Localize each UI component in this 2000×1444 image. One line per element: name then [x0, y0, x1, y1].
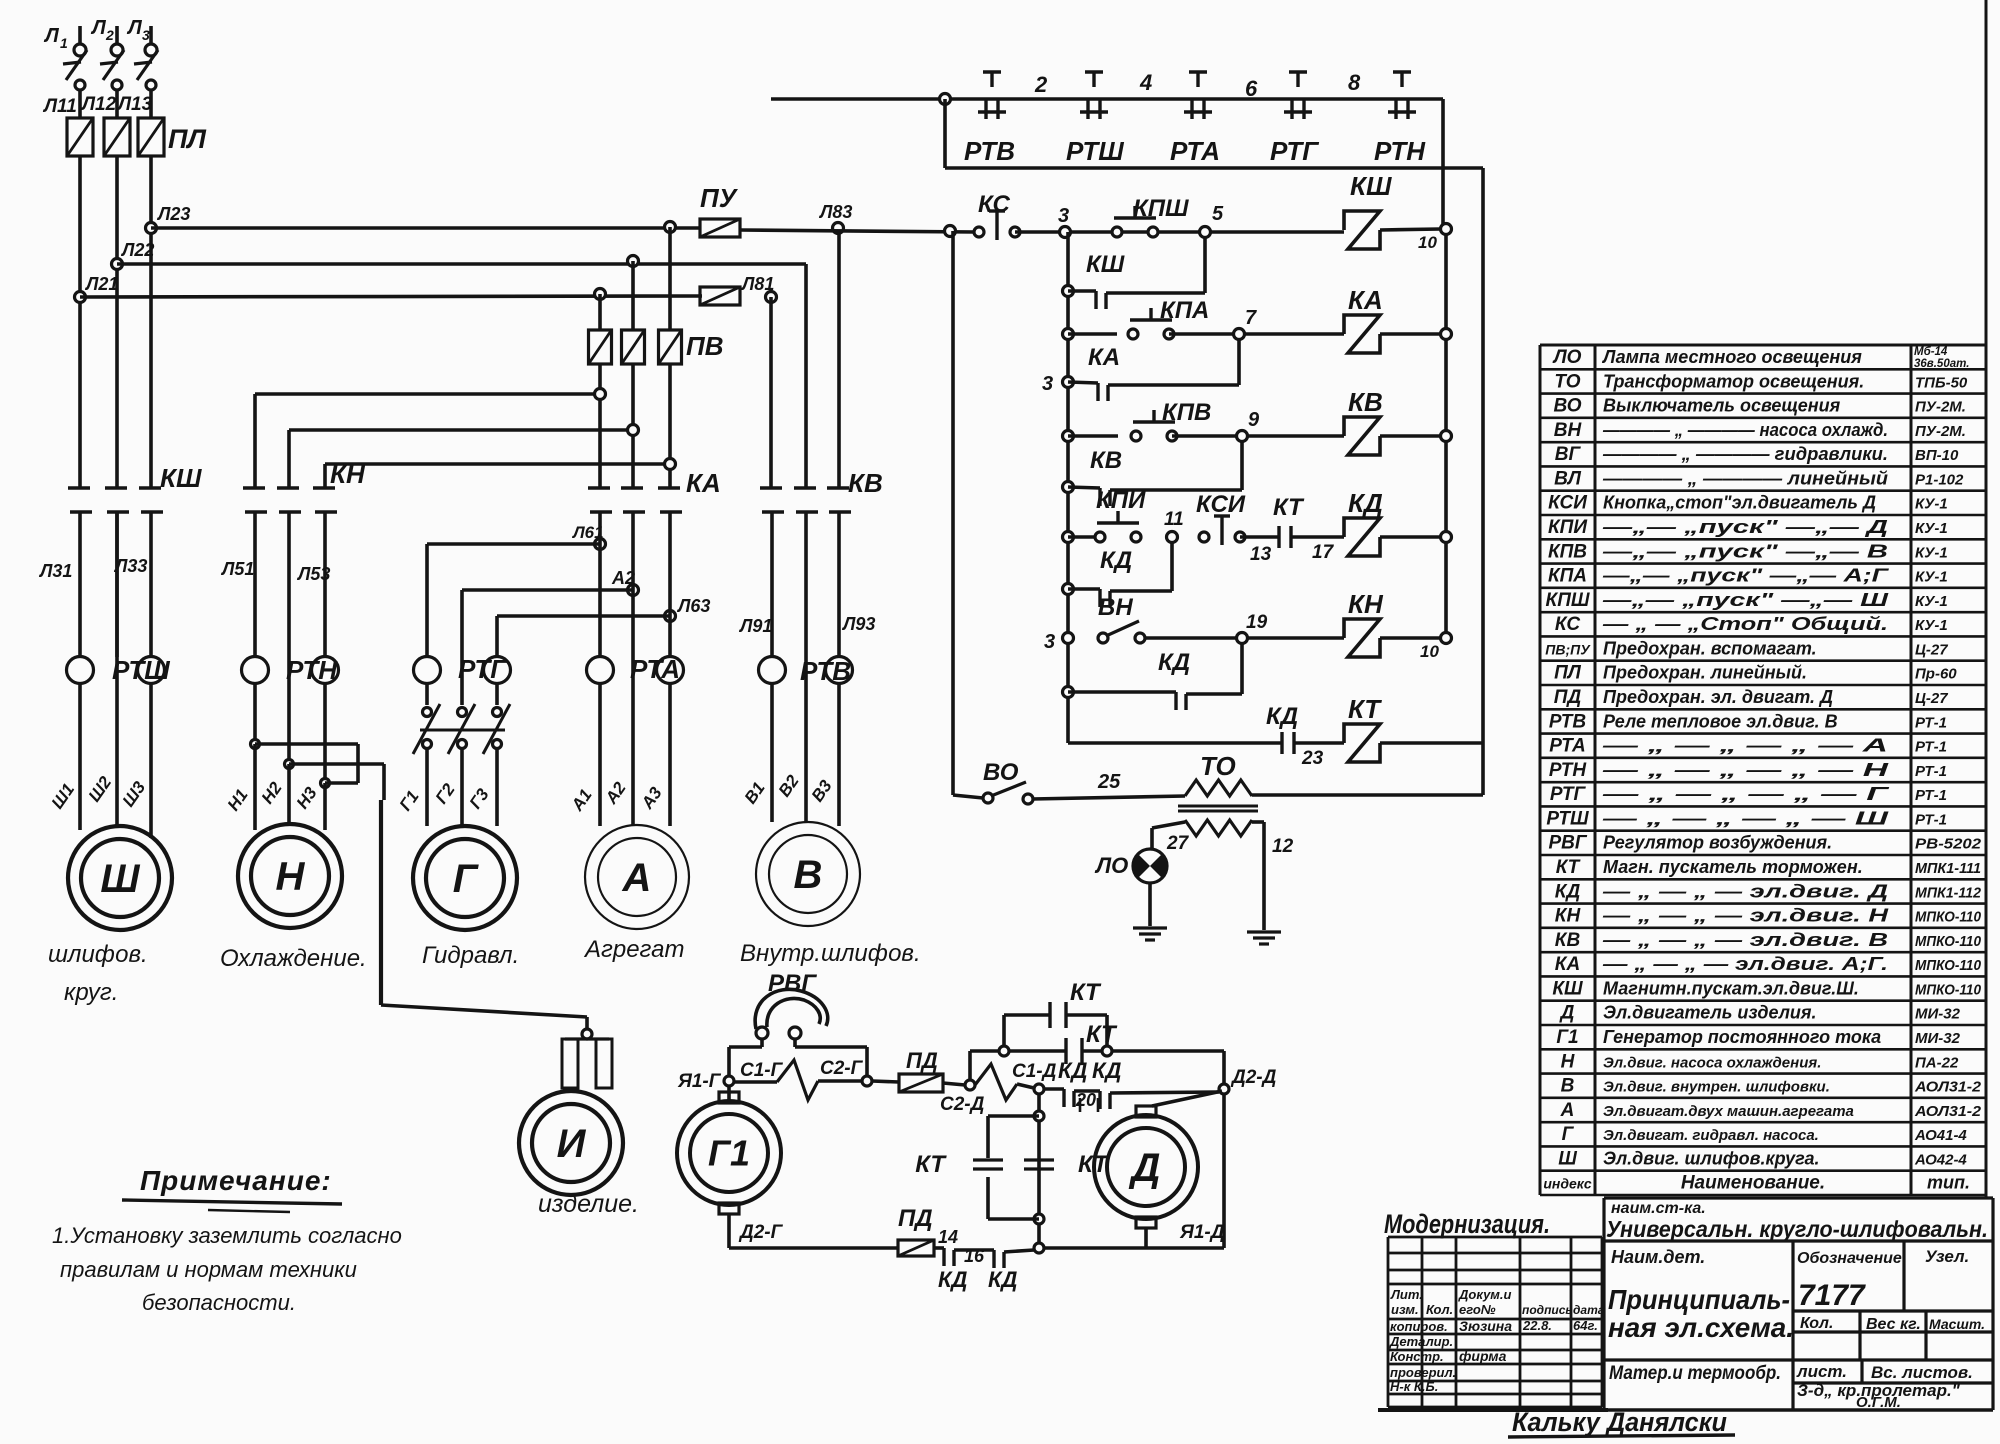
svg-text:Обозначение: Обозначение	[1797, 1250, 1902, 1267]
svg-text:Я1-Г: Я1-Г	[677, 1071, 722, 1092]
svg-text:———— „ ———— насоса охлажд.: ———— „ ———— насоса охлажд.	[1602, 420, 1888, 440]
svg-text:Ц-27: Ц-27	[1915, 690, 1948, 707]
svg-text:Реле тепловое эл.двиг. В: Реле тепловое эл.двиг. В	[1603, 711, 1838, 731]
svg-text:КТ: КТ	[1070, 979, 1102, 1006]
svg-text:Лит.: Лит.	[1390, 1287, 1423, 1302]
svg-text:Л93: Л93	[841, 614, 875, 634]
svg-text:Г: Г	[1562, 1124, 1575, 1145]
svg-text:РТГ: РТГ	[458, 654, 507, 684]
svg-text:МИ-32: МИ-32	[1915, 1030, 1961, 1047]
svg-text:Л81: Л81	[740, 274, 774, 294]
svg-text:РТВ: РТВ	[800, 656, 851, 686]
svg-text:КА: КА	[1348, 285, 1383, 315]
svg-text:Л33: Л33	[113, 556, 147, 576]
svg-text:МПКО-110: МПКО-110	[1915, 981, 1982, 998]
svg-text:Магнитн.пускат.эл.двиг.Ш.: Магнитн.пускат.эл.двиг.Ш.	[1603, 978, 1859, 998]
svg-text:ПД: ПД	[1554, 687, 1582, 708]
svg-text:КУ-1: КУ-1	[1915, 544, 1948, 561]
svg-text:—„— „пуск" —„— В: —„— „пуск" —„— В	[1601, 541, 1888, 561]
svg-text:———— „ ———— линейный: ———— „ ———— линейный	[1602, 468, 1888, 488]
svg-text:ТПБ-50: ТПБ-50	[1915, 374, 1968, 391]
svg-text:МПКО-110: МПКО-110	[1915, 909, 1982, 926]
svg-text:Ш: Ш	[100, 857, 140, 901]
svg-text:ПД: ПД	[898, 1205, 933, 1232]
svg-text:Эл.двиг. насоса охлаждения.: Эл.двиг. насоса охлаждения.	[1603, 1054, 1821, 1071]
svg-text:РТА: РТА	[1170, 136, 1220, 166]
svg-text:3: 3	[1042, 373, 1053, 395]
svg-text:Регулятор возбуждения.: Регулятор возбуждения.	[1603, 833, 1832, 853]
svg-text:КПА: КПА	[1160, 297, 1209, 324]
svg-text:Предохран. эл. двигат. Д: Предохран. эл. двигат. Д	[1603, 687, 1833, 707]
svg-text:КПВ: КПВ	[1548, 541, 1587, 562]
svg-text:КН: КН	[1555, 906, 1582, 927]
svg-text:проверил.: проверил.	[1390, 1365, 1456, 1380]
svg-text:Л13: Л13	[116, 94, 153, 115]
svg-text:КУ-1: КУ-1	[1915, 593, 1948, 610]
svg-text:ЛО: ЛО	[1094, 853, 1128, 878]
svg-text:1: 1	[60, 35, 68, 51]
svg-text:Модернизация.: Модернизация.	[1384, 1209, 1550, 1239]
svg-text:КТ: КТ	[1348, 694, 1382, 724]
svg-text:—„— „пуск" —„— Ш: —„— „пуск" —„— Ш	[1601, 590, 1888, 610]
svg-text:КПА: КПА	[1548, 566, 1587, 587]
svg-text:КВ: КВ	[1348, 387, 1383, 417]
svg-text:ПУ-2М.: ПУ-2М.	[1915, 423, 1966, 440]
svg-text:Узел.: Узел.	[1925, 1247, 1969, 1266]
svg-text:— „ — „Стоп" Общий.: — „ — „Стоп" Общий.	[1602, 614, 1888, 634]
svg-text:РТВ: РТВ	[1549, 711, 1587, 732]
svg-text:КУ-1: КУ-1	[1915, 496, 1948, 513]
svg-text:23: 23	[1301, 748, 1324, 769]
svg-text:Масшт.: Масшт.	[1929, 1316, 1985, 1332]
svg-text:РТ-1: РТ-1	[1915, 714, 1947, 731]
svg-text:Эл.двигат.двух машин.агрегата: Эл.двигат.двух машин.агрегата	[1603, 1103, 1854, 1120]
svg-text:наим.ст-ка.: наим.ст-ка.	[1611, 1200, 1706, 1217]
svg-text:С1-Г: С1-Г	[740, 1060, 784, 1081]
svg-text:10: 10	[1418, 233, 1437, 252]
svg-text:КД: КД	[1100, 547, 1132, 574]
svg-text:— „ — „ — эл.двиг. В: — „ — „ — эл.двиг. В	[1601, 930, 1888, 950]
svg-text:Л21: Л21	[84, 274, 118, 294]
svg-text:Г1: Г1	[708, 1133, 750, 1174]
svg-text:ПУ: ПУ	[700, 183, 739, 213]
svg-text:АОЛ31-2: АОЛ31-2	[1914, 1103, 1982, 1120]
svg-text:круг.: круг.	[64, 979, 118, 1006]
svg-text:Ц-27: Ц-27	[1915, 641, 1948, 658]
svg-text:Г: Г	[453, 857, 480, 901]
svg-text:КД: КД	[1348, 488, 1383, 518]
svg-text:— „ — „ — эл.двиг. А;Г.: — „ — „ — эл.двиг. А;Г.	[1602, 954, 1888, 974]
svg-text:КУ-1: КУ-1	[1915, 569, 1948, 586]
svg-text:КУ-1: КУ-1	[1915, 520, 1948, 537]
svg-text:7177: 7177	[1798, 1279, 1866, 1312]
svg-text:КН: КН	[1348, 589, 1384, 619]
svg-text:И: И	[557, 1122, 587, 1166]
svg-text:КПИ: КПИ	[1096, 487, 1146, 514]
svg-text:В: В	[794, 853, 823, 897]
svg-text:МПК1-112: МПК1-112	[1915, 884, 1982, 901]
svg-text:36в.50ат.: 36в.50ат.	[1914, 358, 1969, 370]
svg-text:тип.: тип.	[1927, 1173, 1970, 1193]
svg-text:———— „ ———— гидравлики.: ———— „ ———— гидравлики.	[1602, 444, 1888, 464]
svg-text:Л11: Л11	[42, 96, 77, 117]
svg-text:Предохран. вспомагат.: Предохран. вспомагат.	[1603, 638, 1817, 658]
svg-text:КА: КА	[1555, 954, 1580, 975]
svg-text:Н-к К.Б.: Н-к К.Б.	[1390, 1379, 1438, 1394]
svg-text:Д2-Д: Д2-Д	[1230, 1067, 1277, 1088]
svg-text:— „ — „ — эл.двиг. Н: — „ — „ — эл.двиг. Н	[1601, 906, 1889, 926]
svg-text:ТО: ТО	[1200, 751, 1236, 781]
svg-text:9: 9	[1248, 409, 1260, 431]
svg-text:РТШ: РТШ	[112, 655, 170, 685]
svg-text:Л63: Л63	[676, 596, 710, 616]
svg-text:13: 13	[1250, 544, 1272, 565]
svg-text:Н: Н	[1561, 1051, 1576, 1072]
svg-text:изделие.: изделие.	[538, 1190, 639, 1218]
svg-text:ПД: ПД	[906, 1048, 938, 1073]
svg-text:ВН: ВН	[1098, 594, 1133, 621]
svg-text:ВО: ВО	[983, 759, 1019, 786]
svg-text:РТШ: РТШ	[1066, 136, 1124, 166]
svg-text:правилам и нормам техники: правилам и нормам техники	[60, 1257, 357, 1282]
svg-text:Примечание:: Примечание:	[140, 1165, 332, 1196]
svg-text:Пр-60: Пр-60	[1915, 666, 1957, 683]
svg-text:лист.: лист.	[1796, 1362, 1847, 1381]
svg-text:РТШ: РТШ	[1546, 808, 1589, 829]
svg-text:64г.: 64г.	[1573, 1318, 1598, 1333]
svg-text:Эл.двигатель изделия.: Эл.двигатель изделия.	[1603, 1003, 1817, 1023]
svg-text:8: 8	[1348, 70, 1361, 95]
svg-text:Принципиаль-: Принципиаль-	[1608, 1284, 1790, 1315]
svg-text:Эл.двиг. внутрен. шлифовки.: Эл.двиг. внутрен. шлифовки.	[1603, 1079, 1830, 1096]
svg-text:11: 11	[1164, 509, 1184, 530]
svg-text:КА: КА	[1088, 344, 1120, 371]
svg-text:МПКО-110: МПКО-110	[1915, 933, 1982, 950]
svg-text:КН: КН	[330, 459, 366, 489]
svg-text:17: 17	[1312, 542, 1335, 563]
svg-text:его№: его№	[1459, 1302, 1496, 1317]
svg-text:шлифов.: шлифов.	[48, 941, 148, 968]
svg-text:Р1-102: Р1-102	[1915, 471, 1964, 488]
svg-text:РТ-1: РТ-1	[1915, 739, 1947, 756]
svg-text:Охлаждение.: Охлаждение.	[220, 945, 367, 972]
svg-text:КСИ: КСИ	[1548, 493, 1587, 514]
svg-text:КСИ: КСИ	[1196, 491, 1246, 518]
svg-text:О.Г.М.: О.Г.М.	[1856, 1394, 1901, 1411]
svg-text:ная эл.схема.: ная эл.схема.	[1608, 1312, 1794, 1343]
svg-text:Эл.двиг. шлифов.круга.: Эл.двиг. шлифов.круга.	[1603, 1148, 1820, 1168]
svg-text:Лампа местного освещения: Лампа местного освещения	[1601, 347, 1862, 367]
svg-text:14: 14	[938, 1227, 958, 1247]
svg-text:Кнопка„стоп"эл.двигатель Д: Кнопка„стоп"эл.двигатель Д	[1603, 493, 1876, 513]
svg-text:ВН: ВН	[1554, 420, 1583, 441]
svg-text:РТГ: РТГ	[1270, 136, 1319, 166]
svg-text:Гидравл.: Гидравл.	[422, 942, 519, 969]
svg-text:АОЛ31-2: АОЛ31-2	[1914, 1079, 1982, 1096]
svg-text:Агрегат: Агрегат	[583, 936, 684, 963]
svg-text:1.Установку заземлить соглас: 1.Установку заземлить согласно	[52, 1223, 402, 1248]
svg-text:Кол.: Кол.	[1426, 1302, 1453, 1317]
svg-text:25: 25	[1097, 771, 1121, 793]
svg-text:безопасности.: безопасности.	[142, 1290, 296, 1315]
svg-text:Мб-14: Мб-14	[1914, 346, 1948, 358]
svg-text:РТ-1: РТ-1	[1915, 763, 1947, 780]
svg-text:Л51: Л51	[220, 559, 254, 579]
svg-text:КС: КС	[1555, 614, 1580, 635]
svg-text:МПКО-110: МПКО-110	[1915, 957, 1982, 974]
svg-text:РТВ: РТВ	[964, 136, 1015, 166]
svg-text:КД: КД	[988, 1267, 1018, 1292]
svg-text:—„— „пуск" —„— А;Г: —„— „пуск" —„— А;Г	[1602, 566, 1890, 586]
svg-text:Деталир.: Деталир.	[1389, 1334, 1453, 1349]
svg-text:С2-Д: С2-Д	[940, 1094, 985, 1115]
svg-text:Магн. пускатель торможен.: Магн. пускатель торможен.	[1603, 857, 1863, 877]
svg-text:Я1-Д: Я1-Д	[1179, 1222, 1225, 1243]
svg-text:ПВ;ПУ: ПВ;ПУ	[1545, 641, 1591, 657]
svg-text:МИ-32: МИ-32	[1915, 1006, 1961, 1023]
svg-text:дата: дата	[1573, 1303, 1605, 1317]
svg-text:КД: КД	[1092, 1058, 1122, 1083]
svg-text:Вс. листов.: Вс. листов.	[1871, 1363, 1973, 1382]
svg-text:5: 5	[1212, 203, 1224, 225]
svg-text:— „ — „ — „ — А: — „ — „ — „ — А	[1601, 736, 1888, 756]
svg-text:—„— „пуск" —„— Д: —„— „пуск" —„— Д	[1601, 517, 1888, 537]
svg-text:КПШ: КПШ	[1133, 195, 1189, 222]
svg-text:КТ: КТ	[1273, 494, 1305, 521]
svg-text:РТГ: РТГ	[1550, 784, 1587, 805]
svg-text:Докум.и: Докум.и	[1458, 1287, 1512, 1302]
svg-text:КПИ: КПИ	[1548, 517, 1587, 538]
svg-text:Л61: Л61	[571, 523, 604, 542]
svg-text:КД: КД	[938, 1267, 968, 1292]
svg-text:КПШ: КПШ	[1546, 590, 1590, 611]
svg-text:КД: КД	[1555, 881, 1581, 902]
svg-text:РТА: РТА	[1549, 736, 1586, 757]
svg-text:Кальку Данялски: Кальку Данялски	[1512, 1407, 1727, 1437]
svg-text:Л: Л	[126, 17, 143, 39]
svg-text:КД: КД	[1266, 703, 1298, 730]
svg-text:Ш: Ш	[1558, 1148, 1577, 1169]
svg-text:КШ: КШ	[1086, 251, 1125, 278]
svg-text:РТ-1: РТ-1	[1915, 787, 1947, 804]
svg-text:ПУ-2М.: ПУ-2М.	[1915, 399, 1966, 416]
svg-text:ЛО: ЛО	[1552, 347, 1582, 368]
svg-text:ВЛ: ВЛ	[1554, 468, 1582, 489]
svg-text:ПЛ: ПЛ	[1554, 663, 1582, 684]
svg-text:КВ: КВ	[848, 468, 883, 498]
svg-text:Л83: Л83	[818, 202, 852, 222]
svg-text:16: 16	[964, 1246, 985, 1266]
svg-text:ПВ: ПВ	[686, 331, 723, 361]
svg-text:ВП-10: ВП-10	[1915, 447, 1959, 464]
svg-text:Л53: Л53	[296, 564, 330, 584]
svg-text:Наименование.: Наименование.	[1681, 1173, 1825, 1194]
svg-text:Универсальн. кругло-шлифовальн: Универсальн. кругло-шлифовальн.	[1606, 1216, 1988, 1242]
svg-text:Д2-Г: Д2-Г	[738, 1222, 784, 1243]
svg-text:2: 2	[105, 27, 114, 43]
svg-text:Н: Н	[276, 855, 306, 899]
svg-text:РТ-1: РТ-1	[1915, 811, 1947, 828]
svg-text:Матер.и термообр.: Матер.и термообр.	[1609, 1363, 1781, 1384]
svg-text:РВГ: РВГ	[1548, 833, 1587, 854]
svg-text:АО41-4: АО41-4	[1914, 1127, 1967, 1144]
svg-text:КШ: КШ	[1350, 171, 1392, 201]
svg-text:РТН: РТН	[1549, 760, 1588, 781]
svg-text:РТА: РТА	[630, 654, 680, 684]
svg-text:МПК1-111: МПК1-111	[1915, 860, 1981, 877]
svg-text:Г1: Г1	[1556, 1027, 1578, 1048]
svg-text:С1-Д: С1-Д	[1012, 1061, 1057, 1082]
svg-text:Д: Д	[1559, 1003, 1575, 1024]
svg-text:КШ: КШ	[160, 463, 202, 493]
svg-text:3: 3	[1044, 631, 1055, 653]
svg-text:Трансформатор освещения.: Трансформатор освещения.	[1603, 371, 1864, 391]
svg-text:КД: КД	[1058, 1058, 1088, 1083]
svg-text:3: 3	[142, 27, 150, 43]
svg-text:изм.: изм.	[1391, 1302, 1419, 1317]
svg-text:12: 12	[1272, 836, 1294, 857]
svg-text:РВГ: РВГ	[768, 970, 817, 997]
svg-text:ПЛ: ПЛ	[168, 124, 207, 154]
svg-text:Эл.двигат. гидравл. насоса.: Эл.двигат. гидравл. насоса.	[1603, 1127, 1819, 1144]
svg-text:КШ: КШ	[1552, 978, 1583, 999]
svg-text:С2-Г: С2-Г	[820, 1058, 864, 1079]
svg-text:10: 10	[1420, 642, 1439, 661]
svg-text:— „ — „ — „ — Ш: — „ — „ — „ — Ш	[1601, 808, 1889, 828]
svg-text:Л: Л	[90, 17, 107, 39]
svg-text:Д: Д	[1129, 1146, 1161, 1190]
svg-text:19: 19	[1246, 612, 1268, 633]
svg-text:А2: А2	[611, 568, 635, 588]
svg-text:копиров.: копиров.	[1390, 1319, 1448, 1334]
svg-text:КД: КД	[1158, 649, 1190, 676]
svg-text:Предохран. линейный.: Предохран. линейный.	[1603, 663, 1807, 683]
svg-text:КТ: КТ	[1556, 857, 1581, 878]
svg-text:7: 7	[1245, 307, 1257, 329]
svg-text:КВ: КВ	[1555, 930, 1581, 951]
svg-text:индекс: индекс	[1543, 1176, 1592, 1192]
svg-text:РТН: РТН	[1374, 136, 1426, 166]
svg-text:КТ: КТ	[1086, 1021, 1118, 1048]
svg-text:— „ — „ — эл.двиг. Д: — „ — „ — эл.двиг. Д	[1601, 881, 1888, 901]
svg-text:Наим.дет.: Наим.дет.	[1611, 1247, 1705, 1267]
svg-text:А: А	[622, 856, 652, 900]
svg-text:— „ — „ — „ — Г: — „ — „ — „ — Г	[1601, 784, 1890, 804]
svg-text:— „ — „ — „ — Н: — „ — „ — „ — Н	[1601, 760, 1890, 780]
svg-text:А: А	[1560, 1100, 1575, 1121]
svg-text:АО42-4: АО42-4	[1914, 1151, 1967, 1168]
svg-text:4: 4	[1139, 70, 1152, 95]
svg-text:Кол.: Кол.	[1800, 1315, 1833, 1332]
svg-text:РТН: РТН	[286, 655, 338, 685]
svg-text:Л23: Л23	[156, 204, 190, 224]
svg-text:Генератор постоянного тока: Генератор постоянного тока	[1603, 1027, 1881, 1047]
svg-text:Л12: Л12	[80, 94, 117, 115]
svg-text:ПА-22: ПА-22	[1915, 1054, 1959, 1071]
svg-text:КВ: КВ	[1090, 447, 1122, 474]
svg-text:КТ: КТ	[915, 1151, 947, 1178]
svg-text:3: 3	[1058, 205, 1069, 227]
svg-text:КС: КС	[978, 191, 1010, 218]
svg-text:ВО: ВО	[1553, 396, 1581, 417]
svg-text:20: 20	[1075, 1090, 1096, 1110]
svg-text:В: В	[1561, 1076, 1575, 1097]
svg-text:КУ-1: КУ-1	[1915, 617, 1948, 634]
svg-text:27: 27	[1166, 833, 1190, 854]
svg-text:22.8.: 22.8.	[1522, 1318, 1552, 1333]
svg-text:6: 6	[1245, 76, 1258, 101]
svg-text:РВ-5202: РВ-5202	[1915, 836, 1982, 853]
svg-text:ВГ: ВГ	[1555, 444, 1582, 465]
svg-text:Л: Л	[43, 25, 60, 47]
svg-text:Выключатель освещения: Выключатель освещения	[1603, 396, 1841, 416]
svg-text:Л22: Л22	[120, 240, 154, 260]
svg-text:Констр.: Констр.	[1390, 1349, 1444, 1364]
svg-text:2: 2	[1034, 72, 1048, 97]
svg-text:КА: КА	[686, 468, 721, 498]
svg-text:фирма: фирма	[1459, 1348, 1507, 1364]
svg-text:Л31: Л31	[38, 561, 72, 581]
svg-text:Л91: Л91	[738, 616, 772, 636]
svg-text:КПВ: КПВ	[1162, 399, 1211, 426]
svg-text:ТО: ТО	[1554, 371, 1580, 392]
svg-text:подпись: подпись	[1522, 1303, 1573, 1317]
svg-text:Зюзина: Зюзина	[1459, 1318, 1512, 1334]
svg-text:Внутр.шлифов.: Внутр.шлифов.	[740, 940, 921, 967]
